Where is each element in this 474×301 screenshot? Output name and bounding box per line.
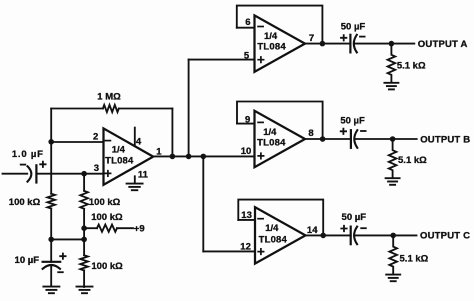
wire bias vertical <box>83 174 85 191</box>
op-amp U1C (1/4 TL084) <box>255 207 306 263</box>
op-amp U1A (1/4 TL084) <box>255 15 306 71</box>
wire feedback top right segment <box>119 108 173 110</box>
svg-text:100 kΩ: 100 kΩ <box>91 212 123 223</box>
svg-text:TL084: TL084 <box>257 138 286 149</box>
node bias left <box>48 237 54 243</box>
U1C minus mark <box>258 218 263 220</box>
svg-text:8: 8 <box>308 128 313 139</box>
50uF A - mark <box>360 36 365 38</box>
node output C <box>390 233 396 239</box>
10uF - mark <box>58 271 63 273</box>
capacitor 50 uF A (straight + plate) <box>349 35 351 53</box>
wire U1C output <box>306 234 351 236</box>
svg-text:100 kΩ: 100 kΩ <box>91 261 123 272</box>
50uF A + mark <box>341 35 346 40</box>
wire cap to pin 3 <box>36 173 103 175</box>
resistor 100k (pin2 gain, left vertical) <box>47 194 55 209</box>
svg-text:TL084: TL084 <box>105 155 134 166</box>
buffer A feedback loop <box>237 6 323 44</box>
resistor 100k (pin3 bias, mid vertical) <box>80 191 88 209</box>
wire bias vertical mid <box>83 209 85 255</box>
resistor 100k to +9 <box>97 225 117 232</box>
svg-text:13: 13 <box>241 210 252 221</box>
wire pin 9 input <box>237 123 255 125</box>
node feedback/pin2 junction <box>48 139 54 145</box>
svg-text:3: 3 <box>94 163 99 174</box>
svg-text:7: 7 <box>309 33 314 44</box>
wire pin 6 input <box>237 27 255 29</box>
node output A <box>389 41 395 47</box>
capacitor 1.0 uF input (straight + plate) <box>35 165 37 182</box>
svg-text:OUTPUT B: OUTPUT B <box>420 134 470 145</box>
wire U1B output <box>305 138 351 140</box>
U1B minus mark <box>258 121 263 123</box>
pin 4 stub (V+) <box>134 128 136 145</box>
ground output A <box>384 82 398 84</box>
node output-busC <box>201 154 207 160</box>
wire bias link horizontal <box>51 238 84 240</box>
wire to +9 terminal <box>117 227 133 229</box>
wire pin 13 input <box>238 219 255 221</box>
10uF + mark <box>60 254 65 259</box>
wire left vertical to bias node <box>50 209 52 262</box>
resistor 100k (bias lower vertical) <box>80 255 88 270</box>
buffer B feedback loop <box>237 102 323 140</box>
ground output B <box>386 177 400 179</box>
wire bus up to buffer A <box>188 60 190 157</box>
svg-text:100 kΩ: 100 kΩ <box>89 197 121 208</box>
svg-text:6: 6 <box>245 17 250 28</box>
wire U1A output bus <box>153 155 254 157</box>
node bias right <box>81 237 87 243</box>
wire pin 2 horizontal <box>51 141 103 143</box>
svg-text:14: 14 <box>307 225 318 236</box>
svg-text:1 MΩ: 1 MΩ <box>97 92 121 103</box>
svg-text:2: 2 <box>93 132 98 143</box>
wire bias lower to ground <box>83 270 85 287</box>
svg-text:11: 11 <box>138 169 149 180</box>
resistor 5.1k C <box>389 235 397 274</box>
svg-text:5.1 kΩ: 5.1 kΩ <box>400 254 429 265</box>
50uF B - mark <box>361 130 366 132</box>
resistor 5.1k B <box>389 139 397 178</box>
capacitor 50 uF B (straight + plate) <box>350 130 352 148</box>
node U1B output <box>320 136 326 142</box>
svg-text:5.1 kΩ: 5.1 kΩ <box>398 155 427 166</box>
capacitor 10 uF (curved - plate) <box>43 265 60 269</box>
node +9 junction <box>81 225 87 231</box>
svg-text:100 kΩ: 100 kΩ <box>9 197 41 208</box>
capacitor 50 uF A (curved - plate) <box>354 35 357 53</box>
svg-text:TL084: TL084 <box>257 41 286 52</box>
wire U1A output <box>305 43 350 45</box>
U1B plus mark <box>258 153 263 158</box>
wire 10uF to ground <box>50 265 52 286</box>
svg-text:+9: +9 <box>134 223 145 234</box>
wire cap to output B <box>356 138 417 140</box>
svg-text:OUTPUT C: OUTPUT C <box>420 231 470 242</box>
input signal wire <box>3 173 28 175</box>
node U1C output <box>320 233 326 239</box>
svg-text:50 µF: 50 µF <box>340 115 365 126</box>
capacitor 50 uF B (curved - plate) <box>354 130 357 148</box>
50uF C - mark <box>361 227 366 229</box>
resistor 5.1k A <box>388 44 396 83</box>
op-amp U1A (1/4 TL084) <box>104 128 154 184</box>
50uF C + mark <box>341 226 346 231</box>
input cap + polarity mark <box>40 162 45 167</box>
svg-text:50 µF: 50 µF <box>342 212 367 223</box>
wire feedback right vertical <box>171 109 173 157</box>
node output B <box>390 136 396 142</box>
capacitor 50 uF C (straight + plate) <box>350 227 352 245</box>
ground U1A pin 11 <box>127 183 143 185</box>
svg-text:5: 5 <box>244 51 250 62</box>
svg-text:50 µF: 50 µF <box>341 22 366 33</box>
wire +9 branch <box>84 227 97 229</box>
svg-text:10: 10 <box>241 146 252 157</box>
wire cap to output A <box>355 43 414 45</box>
op-amp U1B (1/4 TL084) <box>255 111 306 167</box>
svg-text:1/4: 1/4 <box>265 223 279 234</box>
buffer C feedback loop <box>238 200 323 236</box>
ground output C <box>386 274 400 276</box>
pin 11 stub <box>134 176 136 183</box>
svg-text:12: 12 <box>240 242 251 253</box>
U1A plus mark <box>258 57 263 62</box>
ground 10uF <box>43 286 59 288</box>
wire cap to output C <box>355 234 416 236</box>
input cap - polarity mark <box>21 164 26 166</box>
U1A plus input mark <box>105 171 110 176</box>
wire feedback top left segment <box>51 108 103 110</box>
node output-busA <box>186 154 192 160</box>
ground bias divider <box>77 286 93 288</box>
U1A minus mark <box>258 26 263 28</box>
capacitor 50 uF C (curved - plate) <box>354 227 357 245</box>
capacitor 1.0 uF input (curved - plate) <box>28 166 32 181</box>
svg-text:5.1 kΩ: 5.1 kΩ <box>397 60 426 71</box>
wire bus down to buffer C <box>202 156 204 251</box>
node pin3 bias junction <box>81 171 87 177</box>
U1C plus mark <box>258 249 263 254</box>
wire to pin 5 <box>189 59 255 61</box>
svg-text:9: 9 <box>245 115 250 126</box>
svg-text:TL084: TL084 <box>259 235 288 246</box>
svg-text:OUTPUT A: OUTPUT A <box>418 39 468 50</box>
wire feedback left vertical <box>50 109 52 194</box>
50uF B + mark <box>341 129 346 134</box>
node U1A output <box>320 41 326 47</box>
svg-text:1/4: 1/4 <box>112 145 126 156</box>
svg-text:4: 4 <box>136 136 142 147</box>
U1A minus input mark <box>105 140 110 142</box>
svg-text:1.0 µF: 1.0 µF <box>12 149 44 160</box>
wire to pin 12 <box>203 250 255 252</box>
capacitor 10 uF (straight + plate) <box>43 261 61 263</box>
node output-feedback <box>170 154 176 160</box>
resistor 1 Mohm feedback <box>103 105 119 112</box>
svg-text:10 µF: 10 µF <box>15 255 40 266</box>
